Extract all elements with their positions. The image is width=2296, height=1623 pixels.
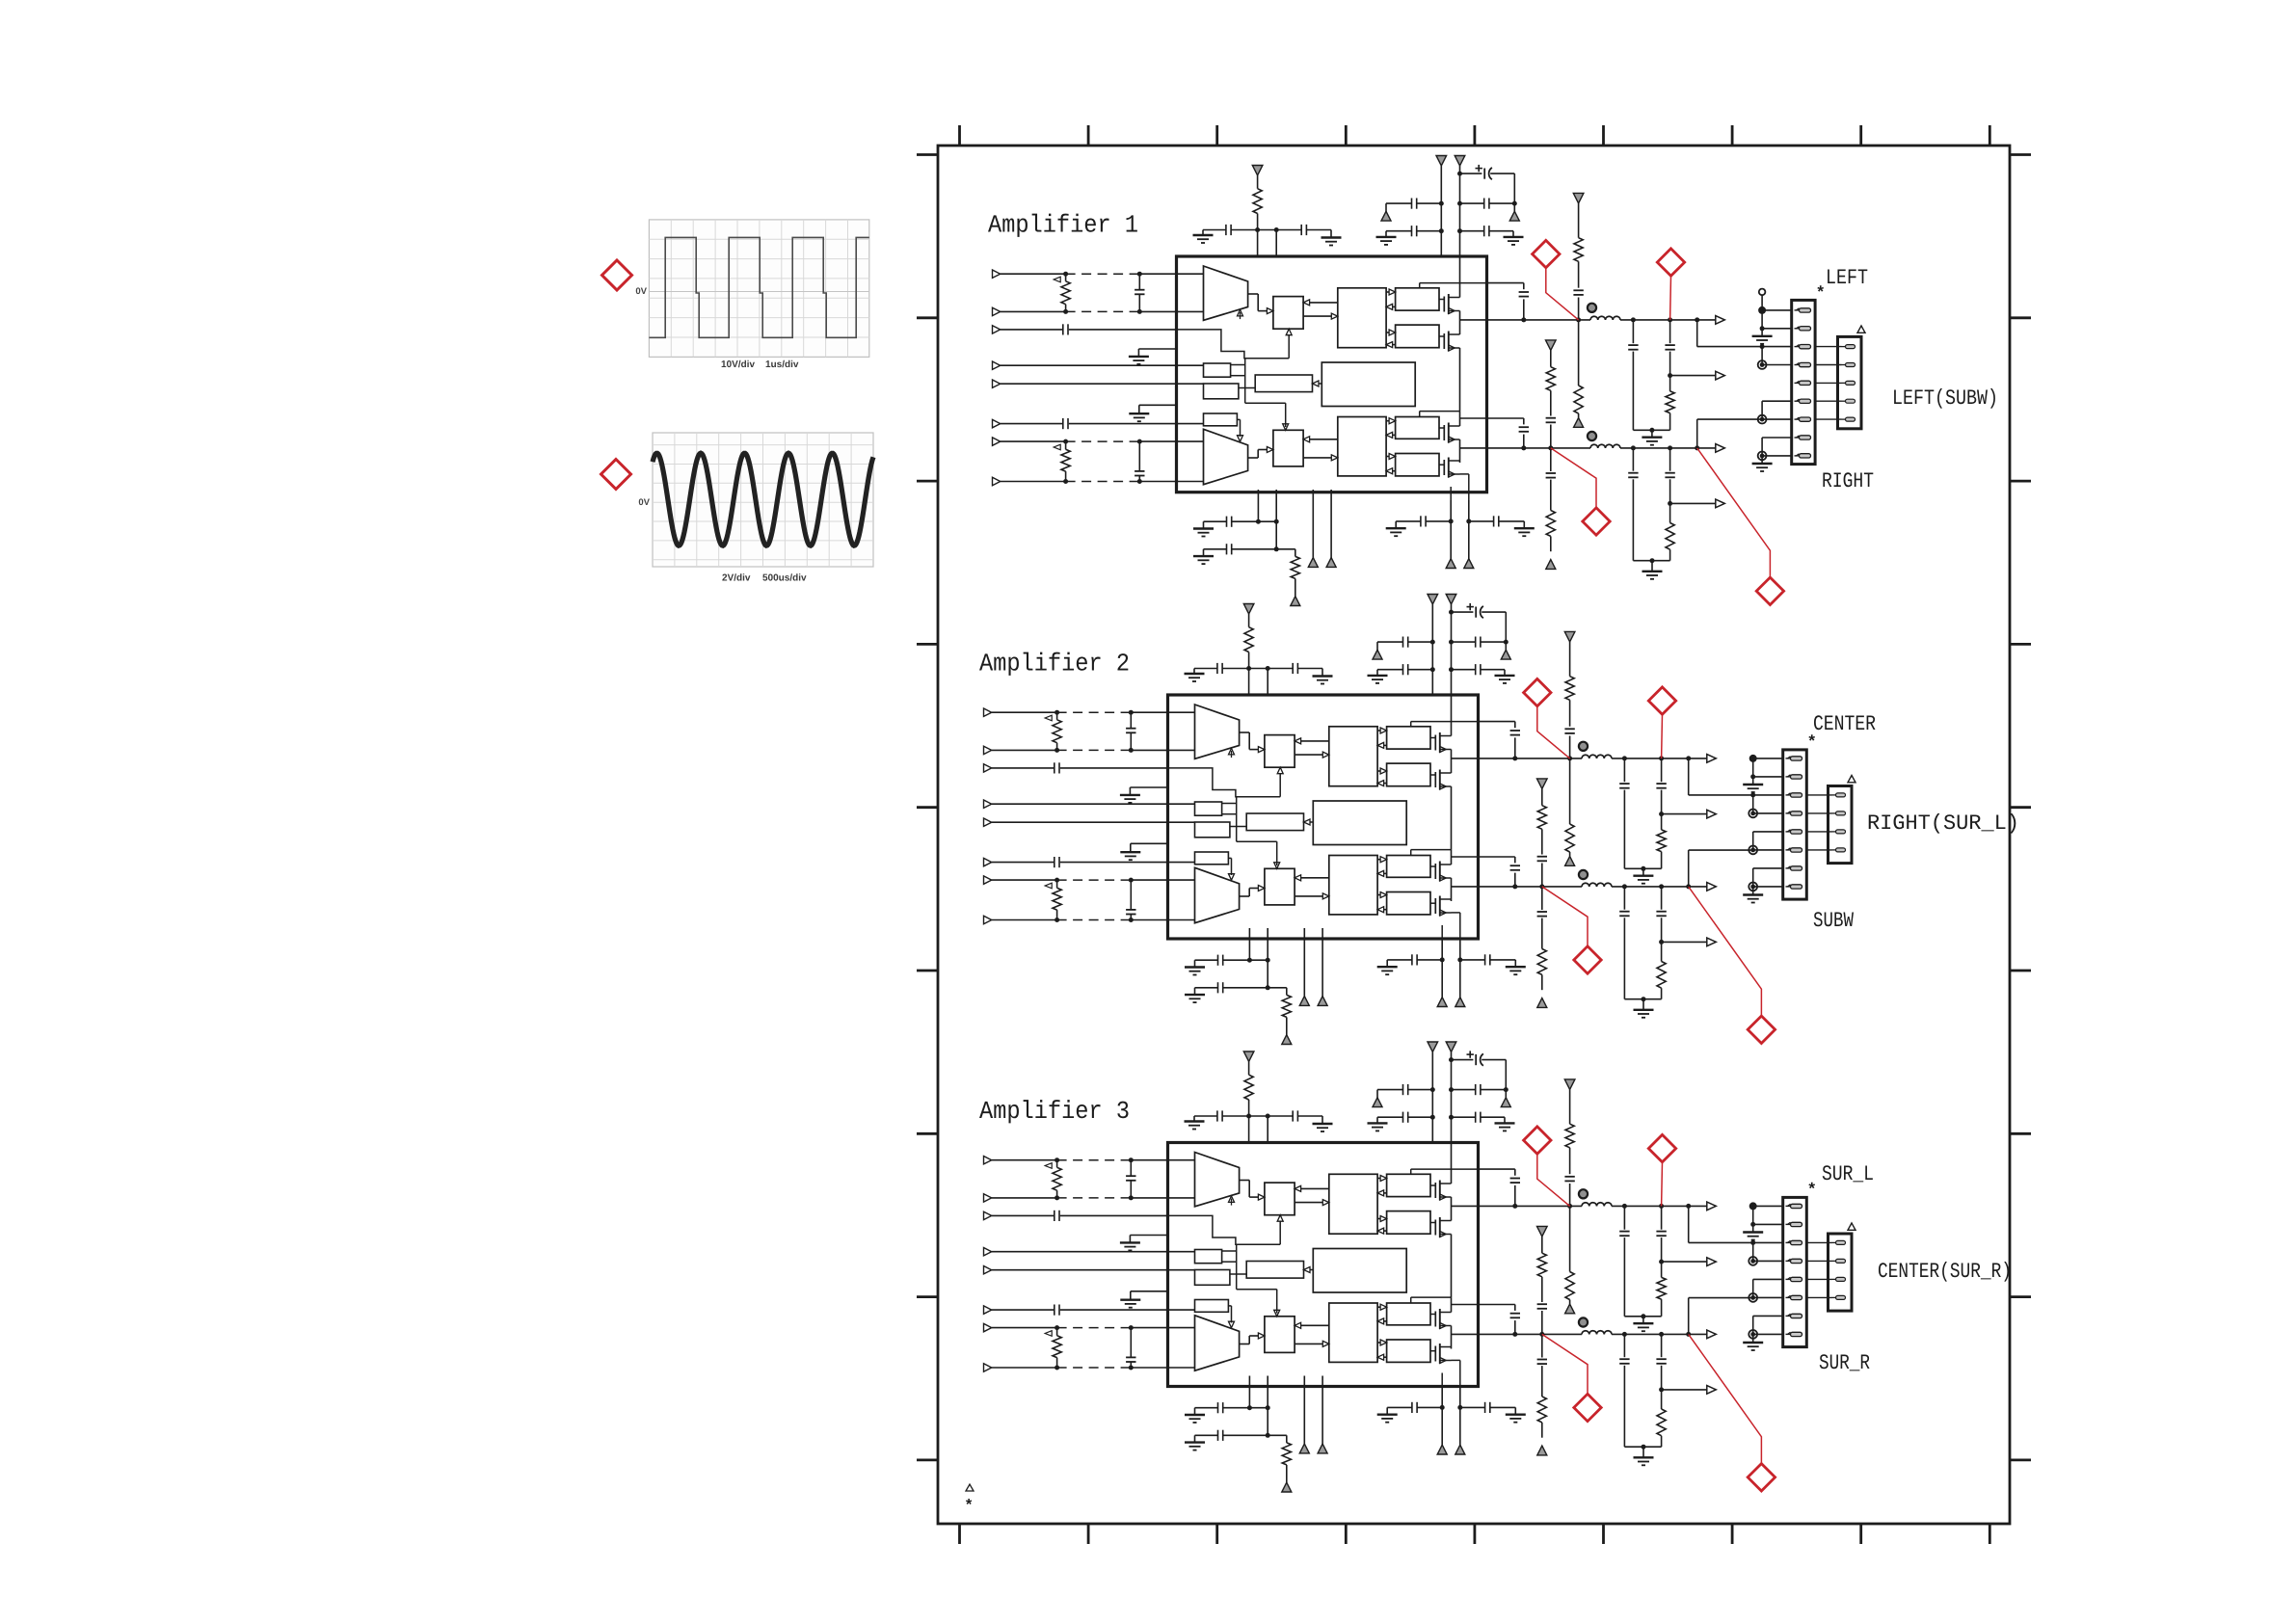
title Amplifier 1 — [988, 214, 1137, 237]
pin 2 CN1 — [1786, 1223, 1791, 1225]
pin 2 CN1 — [1786, 776, 1791, 778]
pin 2 CN1 amp1 — [1795, 328, 1800, 330]
pin 8 CN1 — [1786, 1333, 1791, 1335]
IC U1 body — [1177, 256, 1487, 492]
node ring pin7 amp1 — [1758, 415, 1767, 424]
net label RIGHT — [1823, 472, 1873, 487]
wire pin3-pin4 — [1752, 1242, 1754, 1261]
wire pin2 — [1752, 1206, 1754, 1224]
tick bottom 9 — [1989, 1524, 1991, 1544]
wire pin3 amp1 — [1760, 344, 1765, 349]
tick left 5 — [917, 806, 938, 809]
wire pin8 amp1 — [1762, 437, 1792, 439]
label 0V scope1 — [636, 287, 647, 294]
triangle marker CN2 — [1848, 776, 1855, 783]
wire CN1-CN2 1 — [1806, 794, 1831, 796]
square wave trace — [649, 237, 868, 337]
oscillogram 1 zero line — [649, 291, 868, 293]
node ring pin6 — [1749, 846, 1757, 855]
IC U2 body — [1168, 695, 1479, 939]
pin 6 CN1 — [1786, 849, 1791, 851]
oscillogram 1 grid — [649, 220, 868, 358]
connector CN1 body — [1783, 1197, 1807, 1346]
tick right 9 — [2010, 1459, 2031, 1462]
pin 7 CN1 — [1786, 1315, 1791, 1317]
connector block amp 3 — [1689, 1183, 1855, 1350]
wire sense2 — [1688, 1298, 1690, 1335]
tick bottom 4 — [1345, 1524, 1348, 1544]
pin 4 CN1 amp1 — [1795, 364, 1800, 366]
pin 7 CN1 amp1 — [1795, 418, 1800, 420]
node ring pin6 — [1749, 1293, 1757, 1302]
amplifier 3 circuit — [984, 1042, 1775, 1492]
red diamond marker scope2 — [601, 460, 631, 490]
star marker amp1 — [1817, 285, 1824, 291]
tick top 9 — [1989, 125, 1991, 146]
title Amplifier 2 — [979, 652, 1128, 676]
node ring pin4 — [1749, 810, 1757, 818]
pin 3 CN2 — [1832, 831, 1836, 833]
caption scope2 — [722, 573, 750, 580]
pin 1 CN2 amp1 — [1842, 346, 1846, 348]
triangle marker CN2 amp1 — [1857, 326, 1865, 333]
pin 5 CN1 — [1786, 831, 1791, 833]
pin 1 CN1 — [1786, 1205, 1791, 1207]
pin 5 CN1 amp1 — [1795, 382, 1800, 384]
tick left 6 — [917, 970, 938, 972]
net label SUR_L — [1823, 1165, 1873, 1182]
pin 9 CN1 amp1 — [1795, 455, 1800, 457]
sheet border frame — [938, 146, 2010, 1524]
tick right 3 — [2010, 480, 2031, 483]
wire CN1-CN2 4 — [1806, 1296, 1831, 1298]
amplifier 2 circuit — [984, 595, 1775, 1045]
connector CN1 body — [1783, 750, 1807, 899]
ground G-cn2 amp1 — [1761, 456, 1763, 464]
ground G-cn1 amp1 — [1761, 329, 1763, 336]
chassis circle amp1 — [1759, 289, 1766, 296]
tick bottom 6 — [1602, 1524, 1605, 1544]
tick right 5 — [2010, 806, 2031, 809]
tick top 5 — [1474, 125, 1477, 146]
node ring pin8 — [1749, 883, 1757, 891]
tick left 9 — [917, 1459, 938, 1462]
net label LEFT — [1828, 270, 1867, 283]
wire pin5 — [1753, 831, 1783, 833]
star marker — [1808, 1183, 1815, 1188]
IC U3 body — [1168, 1143, 1479, 1387]
wire sense2 — [1688, 850, 1690, 887]
pin 4 CN2 amp1 — [1842, 400, 1846, 402]
connector CN2 body — [1829, 1234, 1853, 1311]
wire CN1-CN2 amp1 3 — [1815, 382, 1841, 384]
pin 8 CN1 amp1 — [1795, 437, 1800, 439]
tick top 8 — [1859, 125, 1862, 146]
ground G-cn2 — [1752, 1334, 1754, 1343]
wire pin7 — [1753, 1315, 1783, 1317]
wire pin2 amp1 — [1761, 310, 1763, 329]
wire CN1-CN2 amp1 5 — [1815, 418, 1841, 420]
connector CN1 amp1 body — [1792, 300, 1815, 464]
wire CN1-CN2 2 — [1806, 1260, 1831, 1262]
ground G-cn2 — [1752, 887, 1754, 895]
tick bottom 3 — [1215, 1524, 1218, 1544]
pin 4 CN1 — [1786, 1260, 1791, 1262]
oscillogram 2 grid — [653, 433, 873, 567]
pin 5 CN1 — [1786, 1278, 1791, 1280]
node ring pin4 — [1749, 1257, 1757, 1265]
tick bottom 8 — [1859, 1524, 1862, 1544]
tick left 3 — [917, 480, 938, 483]
tick right 8 — [2010, 1295, 2031, 1298]
tick bottom 2 — [1087, 1524, 1090, 1544]
tick right 4 — [2010, 643, 2031, 646]
pin 8 CN1 — [1786, 886, 1791, 888]
connector CN2 amp1 body — [1838, 336, 1862, 428]
wire pin3 — [1750, 792, 1755, 797]
label 0V scope2 — [639, 498, 650, 505]
wire sense1 — [1688, 758, 1690, 795]
pin 3 CN1 — [1786, 1241, 1791, 1243]
tick right 1 — [2010, 153, 2031, 156]
tick right 6 — [2010, 970, 2031, 972]
tick top 2 — [1087, 125, 1090, 146]
node column dots — [1749, 1202, 1757, 1210]
pin 1 CN1 amp1 — [1795, 309, 1800, 311]
red diamond marker scope1 — [602, 260, 632, 290]
pin 2 CN2 — [1832, 1260, 1836, 1262]
pin 6 CN1 — [1786, 1296, 1791, 1298]
wire CN1-CN2 4 — [1806, 849, 1831, 851]
wire pin3-pin4 — [1752, 795, 1754, 813]
pin 2 CN2 — [1832, 812, 1836, 814]
amplifier 1 circuit — [993, 156, 1784, 606]
ground G-cn1 — [1752, 1224, 1754, 1232]
pin 6 CN1 amp1 — [1795, 400, 1800, 402]
pin 4 CN1 — [1786, 812, 1791, 814]
tick top 1 — [958, 125, 961, 146]
node column dots — [1749, 755, 1757, 762]
node ring pin4 amp1 — [1758, 360, 1767, 369]
connector CN2 body — [1829, 786, 1853, 864]
tick left 2 — [917, 316, 938, 319]
pin 3 CN1 — [1786, 794, 1791, 796]
tick left 4 — [917, 643, 938, 646]
tick left 8 — [917, 1295, 938, 1298]
pin 3 CN2 amp1 — [1842, 382, 1846, 384]
caption scope1 — [722, 360, 755, 367]
pin 1 CN2 — [1832, 794, 1836, 796]
tick right 7 — [2010, 1132, 2031, 1135]
net label SUR_R — [1820, 1354, 1870, 1370]
wire CN1-CN2 amp1 2 — [1815, 364, 1841, 366]
wire pin3-pin4 amp1 — [1761, 347, 1763, 365]
tick top 4 — [1345, 125, 1348, 146]
legend triangle — [966, 1484, 974, 1491]
pin 5 CN2 amp1 — [1842, 418, 1846, 420]
pin 4 CN2 — [1832, 849, 1836, 851]
tick left 7 — [917, 1132, 938, 1135]
wire CN1-CN2 2 — [1806, 812, 1831, 814]
pin 4 CN2 — [1832, 1296, 1836, 1298]
tick bottom 1 — [958, 1524, 961, 1544]
ground G-cn1 — [1752, 777, 1754, 785]
pin 1 CN2 — [1832, 1241, 1836, 1243]
net label RIGHT(SUR_L) — [1869, 813, 2016, 834]
net label CENTER — [1814, 715, 1876, 730]
wire pin5 — [1753, 1278, 1783, 1280]
net label CENTER(SUR_R) — [1879, 1262, 2009, 1282]
tick top 6 — [1602, 125, 1605, 146]
pin 3 CN2 — [1832, 1278, 1836, 1280]
wire CN1-CN2 1 — [1806, 1241, 1831, 1243]
wire pin7 — [1753, 867, 1783, 869]
wire sense2 amp1 — [1696, 419, 1698, 448]
star marker — [1808, 734, 1815, 740]
net label SUBW — [1814, 912, 1854, 926]
legend star — [966, 1499, 972, 1504]
wire CN1-CN2 amp1 4 — [1815, 400, 1841, 402]
tick left 1 — [917, 153, 938, 156]
node ring pin8 — [1749, 1330, 1757, 1339]
triangle marker CN2 — [1848, 1223, 1855, 1230]
title Amplifier 3 — [979, 1100, 1129, 1123]
node ring pin9 amp1 — [1758, 452, 1767, 461]
wire pin6 amp1 — [1762, 400, 1792, 402]
node column dots amp1 — [1758, 306, 1766, 314]
wire CN1-CN2 3 — [1806, 831, 1831, 833]
pin 7 CN1 — [1786, 867, 1791, 869]
pin 1 CN1 — [1786, 758, 1791, 759]
tick top 3 — [1215, 125, 1218, 146]
tick bottom 5 — [1474, 1524, 1477, 1544]
wire pin3 — [1750, 1240, 1755, 1245]
wire pin2 — [1752, 758, 1754, 777]
wire CN1-CN2 amp1 1 — [1815, 346, 1841, 348]
tick top 7 — [1731, 125, 1734, 146]
pin 2 CN2 amp1 — [1842, 364, 1846, 366]
wire CN1-CN2 3 — [1806, 1278, 1831, 1280]
sine wave trace — [653, 453, 873, 545]
pin 3 CN1 amp1 — [1795, 346, 1800, 348]
wire sense1 — [1688, 1206, 1690, 1242]
net label LEFT(SUBW) — [1894, 388, 1995, 409]
tick right 2 — [2010, 316, 2031, 319]
tick bottom 7 — [1731, 1524, 1734, 1544]
wire sense1 amp1 — [1696, 320, 1698, 347]
